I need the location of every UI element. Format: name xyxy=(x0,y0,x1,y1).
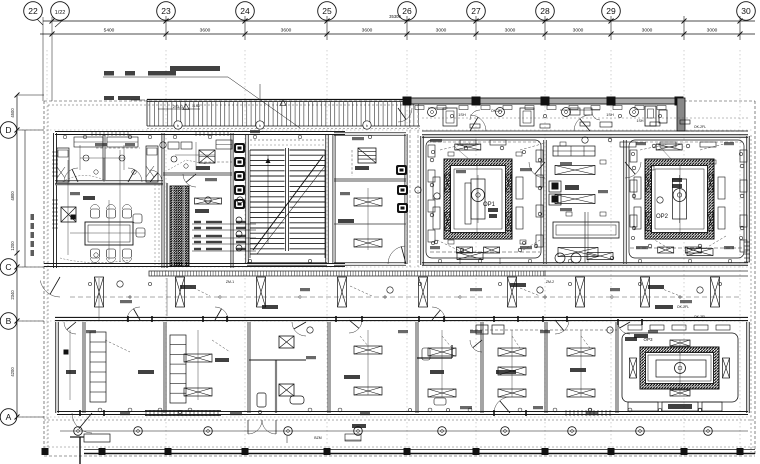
OP bay leader dashes xyxy=(428,142,744,160)
mid zone doors xyxy=(529,162,641,178)
outlet symbols walls xyxy=(63,135,732,412)
svg-text:4800: 4800 xyxy=(10,191,15,201)
svg-text:B: B xyxy=(6,316,12,326)
OP suite outer walls xyxy=(421,135,750,266)
storage shelf marks xyxy=(216,140,232,149)
shaft dashed lines meeting room xyxy=(155,184,159,265)
svg-text:26: 26 xyxy=(402,6,412,16)
svg-text:1SH: 1SH xyxy=(637,119,644,123)
doors bottom wall xyxy=(40,277,630,433)
svg-text:1SH: 1SH xyxy=(606,113,614,117)
electrical panels column xyxy=(234,143,245,251)
storage room xyxy=(168,142,215,187)
corridor texts xyxy=(180,280,689,309)
svg-text:C: C xyxy=(5,262,11,272)
svg-text:A: A xyxy=(6,412,12,422)
svg-text:1/22: 1/22 xyxy=(55,10,66,16)
wc rooms xyxy=(249,322,306,413)
operating room OP1 xyxy=(426,140,707,258)
svg-text:OK-2FL: OK-2FL xyxy=(694,125,706,129)
wiring runs xyxy=(68,150,680,395)
svg-text:OP1: OP1 xyxy=(483,202,496,208)
OP3 corridor clutter xyxy=(470,315,730,341)
svg-text:1200: 1200 xyxy=(10,241,15,251)
svg-text:3000: 3000 xyxy=(707,28,718,34)
svg-text:ZM-1: ZM-1 xyxy=(226,280,234,284)
svg-text:b: b xyxy=(366,124,368,128)
svg-text:b: b xyxy=(259,124,261,128)
meeting room wiring xyxy=(60,200,145,263)
svg-text:-4.60: -4.60 xyxy=(192,104,200,108)
grid bubbles left xyxy=(0,122,44,426)
mid room lights xyxy=(338,185,408,264)
room partitions x417-482 xyxy=(417,340,482,405)
svg-text:b: b xyxy=(177,124,179,128)
corridor lights xyxy=(70,277,740,307)
bottom rooms lights xyxy=(184,330,595,400)
anteroom clutter symbols xyxy=(430,138,744,260)
pipe labels top left xyxy=(103,66,300,128)
prep room between OPs xyxy=(549,146,619,263)
walkway labels xyxy=(287,424,366,443)
bedroom wiring xyxy=(62,145,136,182)
svg-text:28: 28 xyxy=(540,6,550,16)
svg-text:5400: 5400 xyxy=(104,28,115,34)
svg-text:27: 27 xyxy=(471,6,481,16)
svg-text:3600: 3600 xyxy=(362,28,373,34)
door jamb ticks xyxy=(80,316,642,416)
left block walls xyxy=(44,131,345,268)
svg-text:OK-2FL: OK-2FL xyxy=(677,305,689,309)
corridor vertical xyxy=(398,105,418,267)
top corridor clutter extra xyxy=(428,108,690,128)
corridor band walls xyxy=(55,271,748,321)
bedroom furniture xyxy=(57,137,158,182)
svg-text:OK-2FL: OK-2FL xyxy=(491,109,503,113)
storage wiring xyxy=(168,142,215,170)
OP suite clutter xyxy=(428,140,747,264)
top wall right wing xyxy=(403,97,686,132)
svg-text:25: 25 xyxy=(322,6,332,16)
bedroom doors xyxy=(64,168,162,182)
operating room OP3 suite xyxy=(622,333,738,411)
meeting room furniture xyxy=(61,196,145,263)
canopy hatched strip xyxy=(147,100,420,130)
bottom rooms walls xyxy=(56,322,750,415)
grid bubbles top xyxy=(24,2,756,21)
svg-text:3000: 3000 xyxy=(436,28,447,34)
cabinets top right corner xyxy=(570,106,667,127)
circuit schedule leaders xyxy=(192,198,256,251)
left dimension line xyxy=(10,93,44,420)
svg-text:1SH: 1SH xyxy=(458,113,466,117)
small room door and wire xyxy=(64,322,77,400)
top dimension lines xyxy=(37,14,755,101)
svg-text:BZM: BZM xyxy=(314,436,321,440)
transformer symbol mid room xyxy=(355,148,407,175)
svg-text:35300: 35300 xyxy=(389,14,401,19)
OP suite top corridor xyxy=(415,106,748,132)
svg-text:4200: 4200 xyxy=(10,367,15,377)
scattered label blobs xyxy=(70,130,734,415)
svg-text:2SLG: 2SLG xyxy=(173,104,183,109)
prep zone divider xyxy=(585,212,588,263)
svg-text:4500: 4500 xyxy=(10,108,15,118)
walkway double door xyxy=(248,420,276,434)
svg-text:22: 22 xyxy=(28,6,38,16)
duct shaft hatched xyxy=(166,183,189,268)
switch symbols xyxy=(117,137,703,333)
bottom room labels xyxy=(66,358,586,379)
svg-text:29: 29 xyxy=(606,6,616,16)
svg-text:3600: 3600 xyxy=(200,28,211,34)
window sills bottom wall xyxy=(145,242,750,416)
svg-text:D: D xyxy=(5,125,11,135)
left wall sills xyxy=(52,152,58,228)
svg-text:3000: 3000 xyxy=(505,28,516,34)
svg-text:OK-2FL: OK-2FL xyxy=(694,315,706,319)
shelving units xyxy=(90,332,186,403)
bottom walkway xyxy=(42,420,756,464)
svg-text:2340: 2340 xyxy=(10,290,15,300)
svg-text:3600: 3600 xyxy=(281,28,292,34)
svg-text:24: 24 xyxy=(240,6,250,16)
svg-text:3000: 3000 xyxy=(642,28,653,34)
operating room OP2 xyxy=(629,140,744,258)
staircase xyxy=(246,134,329,265)
scattered leader dashes xyxy=(96,143,726,354)
svg-text:30: 30 xyxy=(741,6,751,16)
svg-text:3000: 3000 xyxy=(573,28,584,34)
svg-text:23: 23 xyxy=(161,6,171,16)
building outer dashed boundary xyxy=(44,101,755,456)
svg-text:ZM-2: ZM-2 xyxy=(546,280,554,284)
svg-text:OP2: OP2 xyxy=(656,214,669,220)
extra outlet circles xyxy=(88,114,742,413)
mid rooms walls xyxy=(333,133,407,266)
